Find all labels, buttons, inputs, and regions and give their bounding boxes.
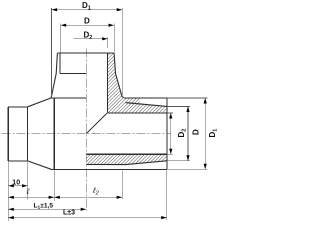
right dimension D1 vertical [167,98,208,169]
svg-text:L1±1,5: L1±1,5 [34,202,54,210]
right socket cone bottom [126,161,167,165]
branch socket bore left [59,53,61,74]
branch top face [57,52,114,54]
svg-text:L±3: L±3 [63,210,75,217]
run bore top line [109,112,167,114]
branch bore wall right with fillet [108,53,110,113]
left end face [7,107,9,161]
run OD bottom [51,168,167,170]
run OD top right segment [124,97,167,99]
branch socket step [60,73,86,75]
branch flank left [51,53,57,98]
dimension D2 top [74,37,108,48]
svg-text:10: 10 [12,179,20,186]
left end bottom [8,160,27,162]
dimension D1 top [52,8,123,96]
right socket cone top [126,103,167,107]
bore saddle diagonal [86,113,107,134]
centerline branch axis [85,49,87,211]
right dimension D2 vertical [167,113,173,154]
dimension D top [61,24,115,53]
svg-text:D: D [192,129,201,135]
svg-text:ℓ: ℓ [26,187,30,196]
dimension 10 [8,185,27,187]
bottom internal line [86,163,125,165]
transition vertical [53,98,55,169]
run OD top left segment [51,97,86,99]
right end face [166,98,168,169]
dimension l and l2 [8,196,122,198]
hatch fillet wedge top right [124,98,140,104]
left end top [8,106,27,108]
centerline run axis [2,133,172,135]
bottom extension lines [8,162,167,221]
cone top left [28,98,52,107]
run bore bottom line [86,153,167,155]
svg-text:D: D [84,17,90,26]
dimension L [8,217,167,219]
dimension L1 [8,208,86,210]
branch flank right [114,53,124,98]
hatch run bottom wall (section) [86,154,167,164]
hatch branch right wall and right socket wedge (top) [108,53,167,113]
cone bottom left [28,161,52,169]
left end step vertical [27,107,29,161]
right dimension D vertical [167,106,190,160]
